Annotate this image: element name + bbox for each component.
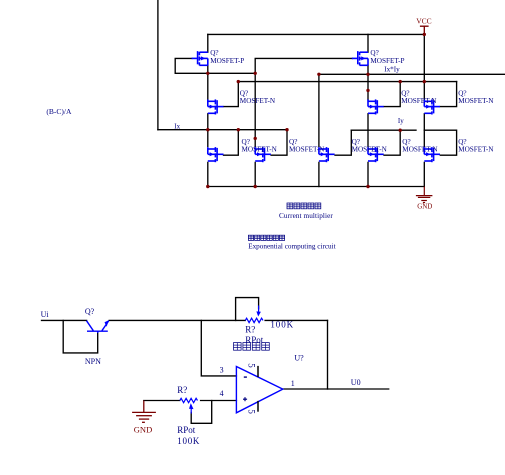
node VCC/top-rail junction [423, 33, 426, 36]
wire: P1 source vertical down to rail1 [207, 65, 209, 73]
wire: GND to pot R2 left lead (pin 4 wire left part) [144, 400, 180, 402]
svg-text:MOSFET-N: MOSFET-N [352, 146, 388, 154]
ground GND (top circuit) [416, 187, 433, 203]
node N8 gate junction [399, 129, 402, 132]
transistor N7 (Q? MOSFET-N) [504, 462, 505, 475]
wire: pot R1 right lead to feedback corner [265, 319, 327, 321]
wire: op-amp inverting input branch (pin 3) [201, 320, 236, 376]
node bottom rail left junction [206, 185, 209, 188]
wire: rail2 (Ix*Iy output rail to right edge) [318, 73, 505, 75]
wire: op-amp output wire to U0 [283, 388, 389, 390]
transistor Q? NPN [87, 320, 109, 333]
node N2 gate junction [399, 80, 402, 83]
svg-text:Iy: Iy [398, 117, 404, 125]
wire: NPN base loop (down, right, up to base) [63, 320, 97, 353]
transistor N7 (Q? MOSFET-N) [319, 147, 335, 162]
svg-text:GND: GND [417, 203, 432, 211]
transistor N2 (Q? MOSFET-N) [504, 462, 505, 475]
wire: Iy gate segment (left part) [351, 129, 416, 131]
transistor N1 (Q? MOSFET-N) [504, 462, 505, 475]
op-amp power stub pin 5 top [257, 366, 259, 377]
resistor R? RPot 100K (input potentiometer) [180, 398, 198, 413]
transistor N3 (Q? MOSFET-N) [504, 462, 505, 475]
wire: top supply rail [208, 33, 424, 35]
wire: N5 drain vertical below Ix rail [207, 130, 209, 147]
svg-text:(B-C)/A: (B-C)/A [46, 107, 72, 116]
node VCC/rail C junction [423, 80, 426, 83]
wire: N7 gate wire right then up to Iy segment [335, 130, 351, 155]
svg-text:Q?: Q? [85, 307, 95, 316]
svg-text:MOSFET-N: MOSFET-N [458, 97, 494, 105]
wire: N6 source vertical down to bottom rail [254, 162, 256, 186]
wire: N1 gate wire right then up to rail C [224, 82, 239, 107]
svg-text:100K: 100K [270, 320, 294, 330]
wire: N5 source vertical down to bottom rail [207, 162, 209, 186]
svg-text:MOSFET-N: MOSFET-N [401, 97, 437, 105]
node Ix rail col1 junction [206, 128, 209, 131]
label caption 集成运放 [234, 343, 270, 351]
transistor N8 (Q? MOSFET-N) [368, 147, 384, 162]
node rail1 end junction [254, 72, 257, 75]
wire: rail1 (P1 drain node) [208, 72, 255, 74]
wire: VCC vertical down through rail C to N3 [423, 34, 425, 99]
op-amp U? triangle [236, 367, 282, 413]
wire: Iy gate segment right part to N9 gate [424, 130, 456, 155]
wire: pot R1 wiper tie box (left terminal to wiper) [236, 298, 259, 321]
node junction on col4 vertical [366, 89, 369, 92]
wire: col2 vertical rail1 down to N6 [254, 73, 256, 146]
MOSFET P1 (Q? MOSFET-P, diode-connected top-left) [192, 51, 208, 65]
wire: N3 gate wire from rail C end down and left [440, 82, 456, 107]
svg-text:MOSFET-P: MOSFET-P [210, 57, 244, 65]
wire: Ui input wire to NPN collector [42, 319, 87, 321]
node Ix rail end junction [285, 128, 288, 131]
node N6 source junction [254, 185, 257, 188]
label minus input sign [244, 376, 247, 378]
node junction on col2 vertical [254, 137, 257, 140]
power VCC symbol [420, 26, 429, 34]
svg-text:5: 5 [246, 363, 256, 368]
transistor N1 (Q? MOSFET-N) [208, 99, 224, 114]
wire: P2 source vertical down to rail2 [367, 65, 369, 74]
wire: Ix rail (horizontal) [158, 129, 287, 131]
node rail2 corner junction [317, 73, 320, 76]
svg-text:MOSFET-N: MOSFET-N [242, 146, 278, 154]
wire: N9 source vertical down to bottom rail [423, 162, 425, 186]
svg-text:NPN: NPN [85, 357, 101, 366]
wire: N1 source vertical down to Ix rail [207, 114, 209, 130]
label caption 指数计算电路 [248, 235, 284, 240]
svg-text:U0: U0 [351, 378, 361, 387]
wire: emitter node wire (NPN emitter to pot R1 left) [109, 319, 245, 321]
node rail C left junction [237, 80, 240, 83]
wire: feedback vertical to op-amp output [327, 320, 329, 389]
svg-text:U?: U? [294, 353, 304, 362]
wire: N5 gate wire right then up to Ix rail [224, 130, 239, 156]
transistor N2 (Q? MOSFET-N) [368, 99, 384, 114]
svg-text:4: 4 [220, 389, 224, 398]
transistor N6 (Q? MOSFET-N) [504, 462, 505, 475]
svg-text:MOSFET-N: MOSFET-N [240, 97, 276, 105]
transistor N5 (Q? MOSFET-N) [504, 462, 505, 475]
wire: col3 vertical rail2 down to N7 [318, 74, 320, 146]
svg-text:100K: 100K [177, 436, 200, 446]
svg-text:Ui: Ui [41, 310, 50, 319]
svg-text:R?: R? [177, 385, 187, 395]
transistor N5 (Q? MOSFET-N) [208, 147, 224, 162]
wire: N3 source vertical down to Iy tee [423, 114, 425, 147]
wire: P1 gate loop (gate left, down, right to rail1) [175, 58, 208, 73]
transistor N9 (Q? MOSFET-N) [504, 462, 505, 475]
svg-text:MOSFET-N: MOSFET-N [289, 146, 325, 154]
wire: N2 gate wire right then up to rail C [384, 82, 400, 107]
svg-text:3: 3 [220, 365, 224, 374]
wire: N2 source vertical down to N8 [367, 114, 369, 147]
label caption 电流倍增器 [287, 203, 321, 209]
wire: pot R2 right lead to op-amp pin 4 [201, 400, 237, 402]
node N5 gate junction [237, 128, 240, 131]
wire: N7 source vertical down to bottom rail [318, 162, 320, 186]
MOSFET P2 (Q? MOSFET-P, output mirror) [352, 51, 368, 65]
wire: P1 drain vertical (top rail to P1) [207, 34, 209, 52]
op-amp power stub pin 5 bottom [257, 401, 259, 412]
svg-text:Ix*Iy: Ix*Iy [384, 65, 400, 73]
resistor R? RPot 100K (feedback potentiometer) [245, 306, 263, 323]
wire: rail C (gate bias rail) [238, 81, 456, 83]
svg-text:Current multiplier: Current multiplier [279, 212, 333, 220]
svg-text:5: 5 [246, 409, 256, 414]
transistor N8 (Q? MOSFET-N) [504, 462, 505, 475]
svg-text:Ix: Ix [174, 122, 180, 130]
svg-text:R?: R? [245, 324, 255, 334]
ground GND (op-amp input) [132, 401, 156, 423]
svg-text:Exponential computing circuit: Exponential computing circuit [248, 243, 335, 251]
svg-text:MOSFET-N: MOSFET-N [402, 146, 438, 154]
wire: N8 source vertical down to bottom rail [367, 162, 369, 186]
node N8 source junction [366, 185, 369, 188]
wire: bottom rail (source/GND rail) [208, 186, 424, 188]
wire: N1 drain vertical from rail1 [207, 73, 209, 99]
wire: P2 drain vertical (top rail to P2) [367, 34, 369, 52]
svg-text:MOSFET-N: MOSFET-N [458, 146, 494, 154]
node P1 drain-gate junction [206, 72, 209, 75]
wire: N8 gate wire right then up to Iy segment [384, 130, 400, 155]
wire: left input line from top edge down to Ix rail [157, 0, 159, 130]
node P2 drain junction [366, 73, 369, 76]
transistor N9 (Q? MOSFET-N) [424, 147, 440, 162]
wire: P2 gate lead left to col2 vertical [255, 58, 352, 73]
svg-text:1: 1 [291, 379, 295, 388]
svg-text:RPot: RPot [177, 425, 196, 435]
wire: col4 vertical rail2 down to N2 drain [367, 74, 369, 99]
wire: N6 gate wire right then up to Ix rail end [271, 130, 287, 156]
svg-text:VCC: VCC [416, 17, 431, 26]
label plus input sign [243, 397, 247, 401]
wire: pot R2 wiper tie box (wiper to right terminal) [191, 401, 212, 424]
svg-text:MOSFET-P: MOSFET-P [370, 57, 404, 65]
transistor N6 (Q? MOSFET-N) [255, 147, 271, 162]
svg-text:RPot: RPot [245, 335, 264, 345]
transistor N3 (Q? MOSFET-N) [424, 99, 440, 114]
svg-text:GND: GND [134, 425, 152, 435]
